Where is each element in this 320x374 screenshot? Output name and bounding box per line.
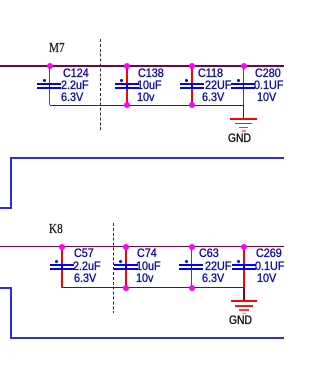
wire blue net segment horizontal left (bottom) (0, 287, 12, 289)
label GND (228, 132, 251, 144)
junction dot C138 pin2 (124, 102, 130, 108)
capacitor C280 (0.1UF 10V) (0, 0, 284, 1)
capacitor C57 (2.2uF 6.3V) (0, 0, 284, 1)
label reference C280 (255, 67, 281, 79)
label value 0.1UF (255, 260, 284, 272)
junction dot C138 pin1 (124, 63, 130, 69)
wire blue net segment horizontal long (middle) (10, 157, 284, 159)
label value 22UF (205, 79, 231, 91)
label reference C138 (138, 67, 164, 79)
junction dot C57 pin1 (59, 244, 65, 250)
wire blue net segment vertical (bottom) (10, 287, 12, 339)
label reference C118 (198, 67, 223, 79)
wire blue net segment vertical (middle) (10, 157, 12, 209)
junction dot C63 pin1 (189, 244, 195, 250)
capacitor C63 (22UF 6.3V) (0, 0, 284, 1)
label bank M7 (49, 42, 65, 56)
boundary dashed line K8 (113, 223, 114, 314)
label GND (229, 314, 252, 326)
label voltage 10v (137, 91, 154, 103)
junction dot C74 pin2 (123, 285, 129, 291)
junction dot C118 pin2 (189, 102, 195, 108)
label reference C124 (63, 67, 89, 79)
ground GND symbol (0, 0, 284, 1)
label voltage 6.3V (61, 91, 83, 103)
wire bottom rail K8 (62, 287, 244, 288)
junction dot C74 pin1 (123, 244, 129, 250)
junction dot C269 pin1 (241, 244, 247, 250)
capacitor C118 (22UF 6.3V) (0, 0, 284, 1)
label voltage 10v (136, 272, 153, 284)
ground GND symbol (0, 0, 284, 1)
label value 22UF (205, 260, 231, 272)
capacitor C124 (2.2uF 6.3V) (0, 0, 284, 1)
junction dot C63 pin2 (189, 285, 195, 291)
label value 2.2uF (73, 260, 101, 272)
wire blue net segment horizontal left (middle) (0, 207, 12, 209)
label value 2.2uF (61, 79, 89, 91)
capacitor C138 (10uF 10v) (0, 0, 284, 1)
wire bottom rail M7 (50, 105, 244, 106)
label voltage 6.3V (74, 272, 96, 284)
junction dot C118 pin1 (189, 63, 195, 69)
capacitor C269 (0.1UF 10V) (0, 0, 284, 1)
label voltage 10V (257, 91, 276, 103)
label value 10uF (137, 79, 162, 91)
wire top rail K8 (0, 246, 284, 247)
boundary dashed line M7 (100, 39, 101, 132)
label voltage 10V (257, 272, 276, 284)
label reference C63 (199, 247, 219, 259)
label value 10uF (136, 260, 161, 272)
label reference C57 (74, 247, 94, 259)
label reference C74 (137, 247, 157, 259)
label bank K8 (49, 223, 63, 237)
wire top rail M7 (0, 65, 284, 66)
label value 0.1UF (254, 79, 283, 91)
label reference C269 (256, 247, 282, 259)
label voltage 6.3V (202, 91, 224, 103)
junction dot C124 pin1 (47, 63, 53, 69)
wire blue net segment horizontal long (bottom) (10, 337, 284, 339)
junction dot C280 pin1 (241, 63, 247, 69)
label voltage 6.3V (202, 272, 224, 284)
capacitor C74 (10uF 10v) (0, 0, 284, 1)
